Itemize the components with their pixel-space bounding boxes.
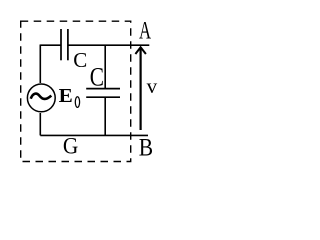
svg-text:B: B <box>139 134 153 162</box>
svg-text:C: C <box>73 48 87 72</box>
svg-text:G: G <box>63 133 78 159</box>
svg-text:C: C <box>90 64 104 92</box>
svg-text:v: v <box>147 74 158 98</box>
svg-text:A: A <box>139 16 152 44</box>
svg-text:E: E <box>59 86 73 107</box>
